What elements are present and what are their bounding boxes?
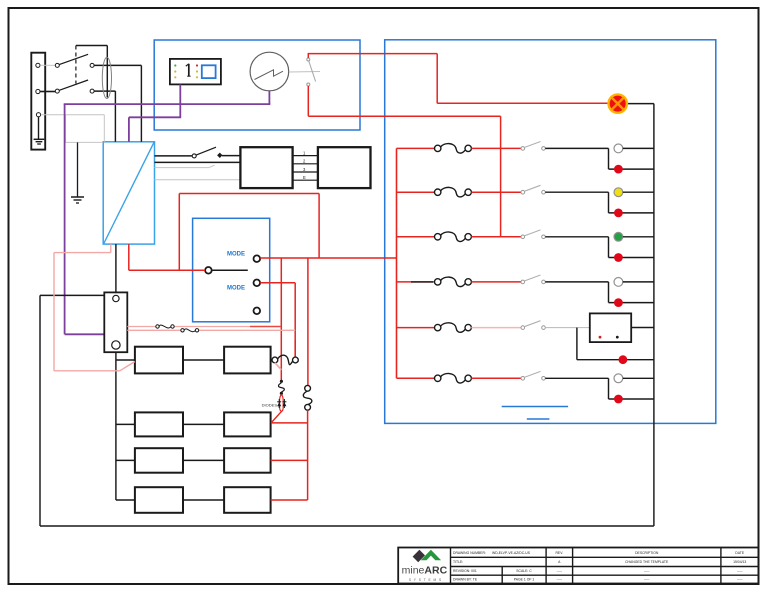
svg-text:-----: ----- [737, 578, 743, 582]
svg-text:SCALE: C: SCALE: C [516, 569, 532, 573]
svg-text:-----: ----- [644, 578, 650, 582]
svg-text:WD-ELVP-VE-AZ/DC-US: WD-ELVP-VE-AZ/DC-US [492, 551, 531, 555]
svg-text:DIODES: DIODES [262, 402, 278, 407]
svg-text:-----: ----- [644, 569, 650, 573]
svg-text:CHANGED THE TEMPLATE: CHANGED THE TEMPLATE [625, 560, 669, 564]
svg-text:TITLE:: TITLE: [453, 560, 463, 564]
svg-text:E: E [303, 175, 306, 180]
svg-text:-----: ----- [556, 569, 562, 573]
svg-text:DRAWING NUMBER:: DRAWING NUMBER: [453, 551, 486, 555]
svg-text:MODE: MODE [227, 251, 245, 257]
svg-text:mineARC: mineARC [402, 564, 448, 576]
svg-text:15/04/13: 15/04/13 [733, 560, 746, 564]
svg-text:-----: ----- [556, 578, 562, 582]
svg-text:-----: ----- [737, 569, 743, 573]
svg-text:DESCRIPTION: DESCRIPTION [635, 551, 659, 555]
svg-text:S Y S T E M S: S Y S T E M S [409, 578, 442, 582]
svg-text:DATE: DATE [735, 551, 745, 555]
svg-text:REVISION: 001: REVISION: 001 [453, 569, 477, 573]
svg-text:MODE: MODE [227, 285, 245, 291]
svg-text:DRAWN BY: TE: DRAWN BY: TE [453, 578, 478, 582]
svg-text:PAGE 1 OF 1: PAGE 1 OF 1 [514, 578, 535, 582]
svg-text:REV.: REV. [555, 551, 563, 555]
